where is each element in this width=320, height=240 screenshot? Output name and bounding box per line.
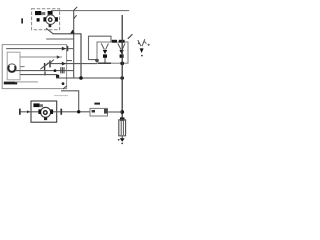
junction dot	[120, 76, 124, 80]
transistor Q2	[49, 60, 51, 67]
junction arrow at fuse node	[70, 30, 74, 34]
field box terminal tick	[20, 66, 25, 68]
battery feed junction dot	[120, 110, 124, 114]
faint stub	[54, 95, 68, 97]
dot above corner	[62, 82, 65, 85]
zener stripes	[60, 67, 62, 73]
alternator dashed box	[32, 9, 60, 30]
wire base rail	[20, 74, 57, 76]
bottom rail dark segment	[98, 62, 111, 64]
field coil box	[7, 52, 20, 80]
brush left tab	[43, 17, 46, 21]
wire vertical from B+	[73, 11, 75, 78]
rotor bottom tab	[49, 24, 52, 27]
wire reg top	[6, 48, 74, 50]
connector bar left	[19, 109, 21, 115]
ground arrowhead	[120, 138, 125, 142]
motor left tab	[38, 109, 41, 114]
terminal bar	[67, 46, 69, 51]
diode D1	[101, 43, 104, 49]
wire field lower	[46, 38, 73, 40]
junction dot lower	[77, 110, 80, 113]
dot below	[141, 55, 143, 57]
junction dot	[54, 69, 57, 72]
corner tick	[63, 86, 67, 89]
wire long mid	[56, 77, 122, 79]
ground rail wire	[15, 81, 38, 83]
tick near edge	[66, 60, 72, 62]
rectifier box	[97, 42, 128, 63]
lamp arrow left ray	[138, 40, 141, 46]
fuse top blob	[120, 117, 125, 120]
top rail blob 1	[112, 40, 117, 43]
wire loop to rectifier	[89, 36, 112, 59]
node 1 label mark	[21, 18, 23, 23]
wire B+ top	[51, 10, 129, 12]
resistor box	[90, 108, 108, 116]
terminal square	[37, 18, 40, 21]
wire starter to resistor	[53, 111, 90, 113]
wire from switch	[53, 34, 82, 78]
ignition switch blade	[46, 28, 53, 34]
node at rectifier left	[95, 59, 98, 62]
transistor Q1	[44, 63, 46, 70]
terminal arrow	[62, 47, 66, 51]
fusible link tick 1	[74, 7, 78, 11]
diode D2	[118, 43, 121, 49]
tick arrow 2	[62, 62, 66, 66]
motor circle	[41, 107, 51, 117]
wire to lower junction	[61, 91, 79, 112]
lamp arrowhead	[140, 48, 144, 53]
starter winding block	[33, 103, 39, 107]
ground bar	[4, 82, 17, 85]
junction blob	[56, 75, 59, 78]
lamp arrow right ray	[142, 39, 145, 46]
rotor brush top tab	[48, 11, 53, 15]
regulator box	[2, 45, 66, 89]
resistor inner mark	[92, 110, 95, 113]
resistor right dark end	[104, 109, 108, 114]
resistor label dash	[94, 103, 100, 105]
fusible link tick 2	[74, 15, 77, 19]
tick bar	[44, 71, 45, 75]
wire resistor to bus	[108, 111, 123, 113]
wire sense	[50, 63, 97, 65]
junction dot rect bottom	[120, 62, 124, 66]
main vertical bus	[121, 15, 123, 120]
tick arrow	[57, 55, 61, 58]
ray dash	[144, 41, 146, 44]
wire tick	[27, 110, 30, 113]
motor right tab	[50, 109, 53, 114]
wire field	[16, 70, 74, 72]
rotor circle	[46, 15, 56, 25]
fuse body	[119, 120, 126, 136]
generator circle	[8, 64, 17, 73]
top rail blob 2	[119, 40, 125, 43]
junction dot	[79, 76, 83, 80]
ray dot	[138, 43, 140, 45]
brush right tab	[55, 17, 58, 21]
ground dot below	[121, 143, 123, 145]
starter solid box	[31, 101, 57, 122]
wire into starter	[20, 111, 38, 113]
ray dot right	[148, 44, 150, 46]
wire fuse to ground	[121, 136, 123, 139]
ground dot left	[118, 139, 120, 141]
wire reg mid1	[20, 56, 62, 58]
fuse inner lines	[120, 121, 122, 135]
motor bottom tab	[44, 117, 47, 120]
corner tick to lamp	[128, 34, 133, 39]
connector bar right	[60, 109, 62, 115]
stator winding block	[35, 11, 41, 15]
